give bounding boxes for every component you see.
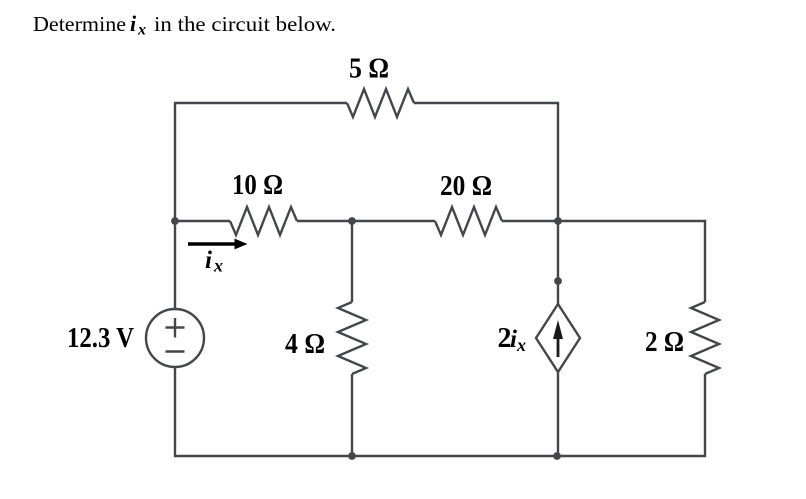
resistor R5 4ohm xyxy=(338,302,366,374)
wire: mid vertical lower xyxy=(351,374,353,456)
resistor R3 20ohm xyxy=(435,207,502,235)
svg-text:10 Ω: 10 Ω xyxy=(232,170,283,201)
node F junction dot bottom right xyxy=(553,452,561,460)
wire: source vertical upper (node B to diamond) xyxy=(557,221,559,304)
label ix xyxy=(205,247,223,276)
svg-text:20 Ω: 20 Ω xyxy=(440,171,492,202)
wire: top right segment xyxy=(414,102,559,104)
node B junction dot xyxy=(554,217,562,225)
svg-text:12.3 V: 12.3 V xyxy=(67,323,134,354)
wire: mid vertical upper (node C down to 4ohm) xyxy=(351,221,353,302)
voltage source V1 12.3V xyxy=(146,309,204,367)
title text part 2 xyxy=(154,12,336,36)
node E junction dot bottom mid xyxy=(348,452,356,460)
wire: middle segment 20ohm to node B xyxy=(502,220,558,222)
label 20 ohm xyxy=(440,171,492,202)
resistor R4 2ohm xyxy=(691,302,719,374)
wire: right vertical upper xyxy=(704,220,706,302)
node D junction dot above diamond xyxy=(554,277,562,285)
label 10 ohm xyxy=(232,170,283,201)
svg-text:2 Ω: 2 Ω xyxy=(645,327,684,358)
wire: right vertical lower xyxy=(175,374,705,456)
title ix symbol xyxy=(130,11,146,39)
current arrow ix xyxy=(188,239,248,250)
wire: middle segment 10ohm to node C xyxy=(297,220,352,222)
svg-text:Determine: Determine xyxy=(33,12,126,36)
svg-text:i: i xyxy=(205,247,212,274)
wire: source vertical lower xyxy=(557,372,559,456)
wire: left vertical upper (node A up to top-left corner) xyxy=(174,103,176,222)
wire: left vertical above source xyxy=(174,221,176,309)
label 2ix xyxy=(498,323,527,355)
resistor R1 5ohm xyxy=(347,89,414,117)
title text part 1 xyxy=(33,12,126,36)
wire: left vertical below source xyxy=(174,367,176,457)
svg-text:5 Ω: 5 Ω xyxy=(349,54,389,85)
wire: middle segment node B to right corner xyxy=(558,220,706,222)
svg-text:i: i xyxy=(130,11,137,36)
wire: top left segment xyxy=(174,102,347,104)
svg-text:x: x xyxy=(137,22,146,39)
wire: middle segment node A to 10ohm xyxy=(175,220,230,222)
wire: upper right vertical (top corner down to node B) xyxy=(557,103,559,221)
dependent current source 2ix diamond xyxy=(536,304,580,372)
node A junction dot xyxy=(171,217,179,225)
label 2 ohm xyxy=(645,327,684,358)
wire: middle segment node C to 20ohm xyxy=(352,220,435,222)
svg-text:4 Ω: 4 Ω xyxy=(285,329,325,360)
label 12.3 V xyxy=(67,323,134,354)
resistor R2 10ohm xyxy=(230,207,297,235)
label 4 ohm xyxy=(285,329,325,360)
svg-text:x: x xyxy=(213,256,223,276)
svg-text:in the circuit below.: in the circuit below. xyxy=(154,12,336,36)
label 5 ohm xyxy=(349,54,389,85)
svg-text:i: i xyxy=(510,326,517,353)
svg-text:x: x xyxy=(516,335,526,355)
node C junction dot xyxy=(348,217,356,225)
